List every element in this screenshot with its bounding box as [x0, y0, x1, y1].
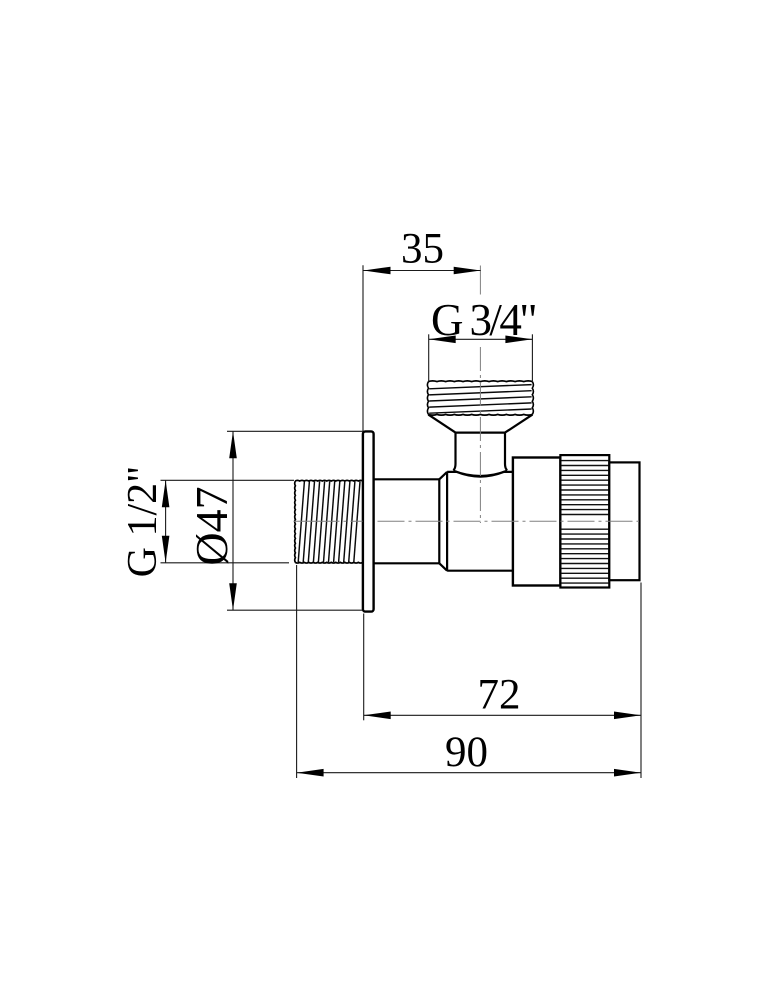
top thread G3/4 male — [427, 381, 533, 415]
handle smooth section — [513, 458, 561, 586]
outlet cone — [428, 415, 532, 433]
handle end cap — [609, 462, 639, 580]
svg-text:90: 90 — [445, 729, 488, 776]
svg-text:72: 72 — [478, 672, 521, 719]
dimension 35 — [363, 226, 481, 432]
left thread G1/2 male pipe — [295, 480, 363, 563]
handle knurled grip — [560, 455, 609, 587]
valve center section — [439, 472, 513, 571]
svg-text:G 3/4": G 3/4" — [431, 295, 535, 345]
svg-text:G 1/2": G 1/2" — [120, 466, 166, 578]
svg-text:35: 35 — [401, 226, 444, 273]
vertical centerline of outlet — [479, 266, 481, 524]
horizontal centerline — [294, 520, 363, 522]
body pipe between flange and center — [374, 479, 440, 563]
dimension G 1/2 — [120, 466, 294, 578]
dimension G 3/4 — [429, 295, 536, 381]
dimension 72 — [364, 583, 641, 779]
outlet neck — [453, 433, 507, 476]
flange D47 — [363, 431, 374, 611]
dimension 90 — [297, 565, 641, 778]
dimension D47 — [186, 431, 363, 610]
svg-text:Ø47: Ø47 — [186, 486, 237, 565]
